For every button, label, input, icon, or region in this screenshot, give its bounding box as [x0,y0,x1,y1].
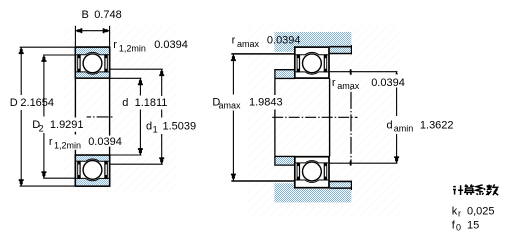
ra/damin extension line (bottom) with tick [330,162,398,164]
dimension d: extension lines [110,77,141,79]
svg-text:amin: amin [394,123,414,133]
svg-text:r: r [49,136,53,148]
shaft surface line (top) [275,77,295,79]
shaft shoulder block (bottom) [276,157,295,165]
svg-text:1.9843: 1.9843 [249,96,283,108]
svg-text:d: d [146,120,152,132]
housing top-right shoulder bottom line [330,53,352,55]
svg-text:k: k [452,206,458,218]
housing top band (blue) [274,32,351,46]
dimension D2: dimension line [43,55,45,117]
shaft surface line (bottom) [275,155,295,157]
bearing right face edge between sections [329,78,331,156]
svg-text:0,025: 0,025 [467,206,495,218]
svg-text:1.9291: 1.9291 [50,119,84,131]
housing bore line right of bearing (top) [330,46,352,48]
dimension D: dimension line [20,47,22,95]
top cross-section (left bearing) [75,47,109,78]
bottom cross-section (left bearing, mirror of top about y=116.6) [75,155,109,186]
housing bottom-right shoulder strip [330,182,352,187]
housing bottom band (blue) [274,183,294,202]
svg-text:0.0394: 0.0394 [267,34,301,46]
dimension D2: extension lines [43,54,74,56]
svg-text:1.5039: 1.5039 [163,120,197,132]
bore cylinder left edge (vertical, with text gaps) [74,47,76,186]
dimension B: extension lines above bearing [74,26,76,47]
系 [476,185,485,195]
housing bottom-right shoulder top line [330,180,352,182]
svg-text:1,2min: 1,2min [54,141,81,151]
svg-text:B: B [82,9,89,21]
ra/damin extension line (top) with tick [330,71,398,73]
算 [464,184,474,195]
计 [453,185,463,195]
svg-text:d: d [122,97,128,109]
shaft shoulder top line [274,69,295,71]
shaft shoulder face edge (vertical, with text gap) [274,70,276,95]
svg-text:1: 1 [153,125,158,135]
svg-text:0.0394: 0.0394 [154,39,188,51]
housing shoulder face line (top, = Da extension) [231,53,294,55]
watermark hatch right figure [246,26,400,216]
right seal [104,54,108,72]
inner ring band (blue) [76,72,109,77]
shaft shoulder bottom line [274,164,295,166]
shaft end dash-dot line (vertical) [350,69,352,165]
dimension d: dimension line [139,78,141,95]
dimension Damax: dimension line [232,54,234,94]
dimension B: dimension line with arrows [75,30,109,32]
数 [486,184,498,195]
svg-text:amax: amax [237,39,260,49]
watermark hatch left figure [62,26,178,192]
outer ring band (blue) [76,48,109,55]
axis centerline (left figure) [87,116,113,118]
housing shoulder face line (bottom, = Da extension) [231,180,294,182]
svg-text:2: 2 [39,123,44,133]
svg-text:0.0394: 0.0394 [88,136,122,148]
svg-text:0: 0 [456,223,461,233]
inner raceway boundary line [76,72,109,74]
svg-text:0.0394: 0.0394 [371,77,405,89]
shaft shoulder block (top) [276,70,295,78]
svg-text:r: r [332,77,336,89]
svg-text:D: D [10,97,18,109]
svg-text:d: d [387,120,393,132]
svg-text:r: r [232,34,236,46]
svg-text:r: r [458,209,461,219]
outer raceway boundary line [76,52,109,54]
housing top-right edge [350,45,352,54]
top cross-section (right bearing, unshaded) [295,47,329,78]
bore cylinder right edge (vertical, with text gap) [109,47,111,186]
housing bore line right of bearing (bottom) [330,187,352,189]
svg-text:15: 15 [467,220,479,232]
dimension damin: dimension line [396,72,398,75]
left seal [77,54,81,72]
svg-text:amax: amax [219,101,242,111]
housing top-right shoulder strip [330,48,352,53]
svg-text:1,2min: 1,2min [119,43,146,53]
svg-text:amax: amax [337,81,360,91]
housing top-left shoulder block [274,46,294,52]
bottom cross-section (right bearing, mirror about y=117.4) [295,157,329,188]
svg-text:2.1654: 2.1654 [20,97,54,109]
svg-text:0.748: 0.748 [94,9,122,21]
housing bottom-right edge [350,181,352,190]
dimension d1: dimension line [161,69,163,96]
axis centerline (right figure) [272,116,357,118]
Chinese title 计算系数 (hand-drawn strokes) [453,184,498,195]
svg-text:r: r [113,39,117,51]
label ramax 0.0394 (middle right) [331,75,362,89]
dimension D: extension lines [20,46,75,48]
svg-text:1.1811: 1.1811 [135,97,168,109]
section body [75,47,109,78]
dimension d1: extension lines [110,68,163,70]
svg-text:1.3622: 1.3622 [420,120,454,132]
ball [83,54,102,73]
